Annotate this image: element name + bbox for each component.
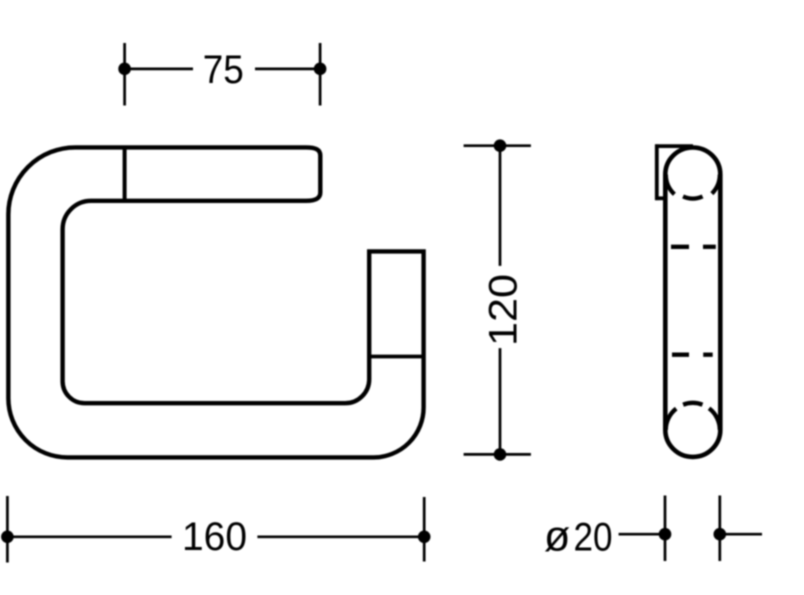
svg-text:120: 120 (482, 274, 526, 346)
svg-text:160: 160 (182, 515, 247, 559)
svg-text:75: 75 (203, 48, 244, 92)
svg-text:20: 20 (574, 515, 613, 559)
svg-text:ø: ø (544, 512, 570, 560)
